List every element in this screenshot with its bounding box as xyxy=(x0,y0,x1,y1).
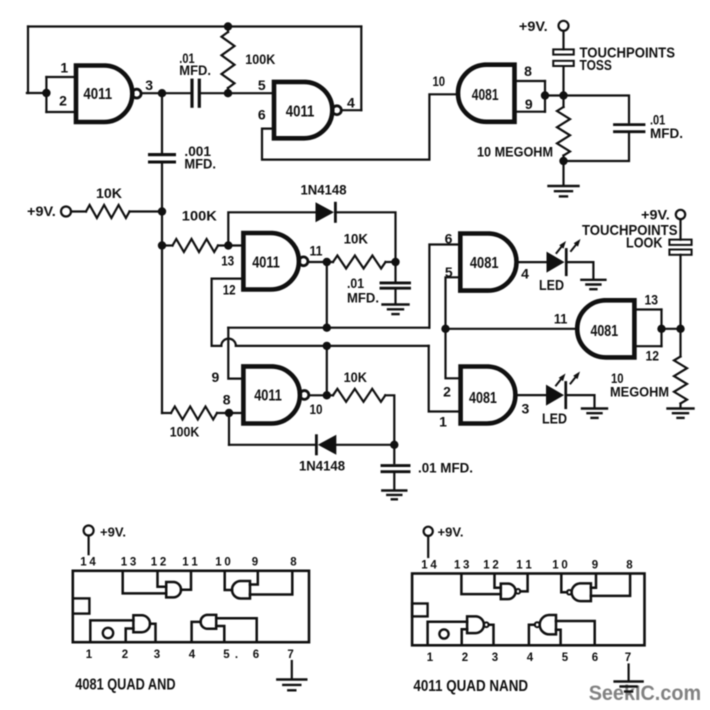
svg-text:MFD.: MFD. xyxy=(347,289,379,305)
svg-text:9: 9 xyxy=(525,96,533,112)
svg-text:9: 9 xyxy=(212,369,220,385)
svg-text:MFD.: MFD. xyxy=(179,62,211,78)
svg-text:8: 8 xyxy=(290,557,297,569)
svg-text:100K: 100K xyxy=(170,423,200,439)
svg-text:9: 9 xyxy=(592,559,598,571)
svg-text:10 MEGOHM: 10 MEGOHM xyxy=(477,143,553,159)
svg-text:+9V.: +9V. xyxy=(438,525,464,540)
svg-text:MFD.: MFD. xyxy=(650,125,683,141)
svg-text:2: 2 xyxy=(122,649,128,661)
svg-text:1: 1 xyxy=(427,652,434,664)
svg-text:3: 3 xyxy=(492,652,498,664)
svg-text:100K: 100K xyxy=(245,51,275,67)
svg-text:4011: 4011 xyxy=(254,388,282,405)
svg-text:7: 7 xyxy=(625,652,631,664)
svg-text:4: 4 xyxy=(521,266,529,282)
svg-text:6: 6 xyxy=(253,649,259,661)
svg-text:LOOK: LOOK xyxy=(626,235,663,252)
svg-text:2: 2 xyxy=(59,92,67,108)
svg-text:4: 4 xyxy=(189,649,196,661)
svg-text:1: 1 xyxy=(86,649,93,661)
svg-text:10K: 10K xyxy=(344,369,367,385)
svg-text:7: 7 xyxy=(287,649,293,661)
svg-text:2: 2 xyxy=(443,383,451,399)
svg-text:11: 11 xyxy=(310,242,323,258)
svg-text:13: 13 xyxy=(645,292,659,308)
svg-text:12: 12 xyxy=(223,281,236,297)
svg-text:SeekIC.com: SeekIC.com xyxy=(589,681,701,705)
svg-text:4081: 4081 xyxy=(469,390,497,407)
svg-text:4: 4 xyxy=(347,95,355,111)
svg-text:9: 9 xyxy=(252,557,258,569)
svg-text:TOSS: TOSS xyxy=(580,57,612,74)
svg-text:+9V.: +9V. xyxy=(27,203,56,219)
svg-text:6: 6 xyxy=(445,230,453,246)
svg-text:10K: 10K xyxy=(344,231,368,247)
svg-text:+9V.: +9V. xyxy=(519,18,548,34)
svg-text:10: 10 xyxy=(433,73,446,89)
svg-text:8: 8 xyxy=(223,391,231,407)
svg-text:4081: 4081 xyxy=(472,87,499,104)
svg-text:4011 QUAD NAND: 4011 QUAD NAND xyxy=(413,678,528,695)
svg-text:8: 8 xyxy=(524,63,532,79)
svg-text:1N4148: 1N4148 xyxy=(299,458,345,474)
svg-text:12: 12 xyxy=(646,348,660,364)
svg-text:5: 5 xyxy=(258,77,266,93)
svg-text:2: 2 xyxy=(462,652,468,664)
svg-text:3: 3 xyxy=(145,77,153,93)
svg-text:4081 QUAD AND: 4081 QUAD AND xyxy=(75,676,175,693)
svg-text:4081: 4081 xyxy=(470,255,499,272)
svg-text:1: 1 xyxy=(439,413,447,429)
svg-text:+9V.: +9V. xyxy=(641,207,670,223)
svg-text:8: 8 xyxy=(626,559,633,571)
svg-text:5: 5 xyxy=(562,652,569,664)
svg-text:5: 5 xyxy=(223,649,230,661)
svg-text:6: 6 xyxy=(592,652,598,664)
svg-text:.01 MFD.: .01 MFD. xyxy=(418,459,473,475)
svg-text:MFD.: MFD. xyxy=(184,156,216,172)
svg-text:10K: 10K xyxy=(96,185,122,201)
svg-text:13: 13 xyxy=(221,252,234,268)
svg-text:MEGOHM: MEGOHM xyxy=(610,383,669,399)
svg-text:4: 4 xyxy=(527,652,534,664)
svg-text:.: . xyxy=(235,649,238,661)
svg-text:11: 11 xyxy=(554,311,568,327)
svg-text:LED: LED xyxy=(542,411,567,427)
svg-text:LED: LED xyxy=(539,278,564,294)
svg-text:10: 10 xyxy=(310,401,323,417)
svg-text:1N4148: 1N4148 xyxy=(301,182,347,198)
svg-text:100K: 100K xyxy=(182,208,217,224)
svg-text:6: 6 xyxy=(258,106,266,122)
svg-text:3: 3 xyxy=(522,400,530,416)
svg-text:4011: 4011 xyxy=(83,86,112,103)
svg-text:4081: 4081 xyxy=(591,323,619,340)
svg-text:4011: 4011 xyxy=(286,103,315,120)
svg-text:4011: 4011 xyxy=(252,255,280,272)
svg-text:1: 1 xyxy=(60,59,68,75)
svg-text:+9V.: +9V. xyxy=(100,525,126,540)
svg-text:3: 3 xyxy=(154,649,160,661)
